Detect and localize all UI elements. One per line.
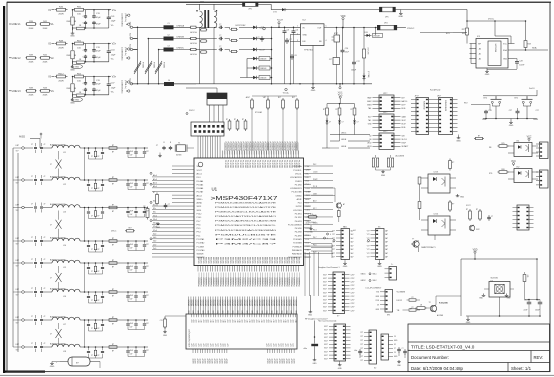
connector pins V3: [121, 80, 130, 94]
svg-text:GND: GND: [503, 58, 508, 60]
svg-text:S1?: S1?: [211, 320, 213, 323]
svg-text:4?: 4?: [44, 176, 46, 178]
svg-text:RT2: RT2: [464, 102, 468, 104]
svg-text:S1?: S1?: [274, 320, 276, 323]
svg-text:1N4148: 1N4148: [373, 36, 379, 38]
svg-text:GND: GND: [156, 227, 161, 229]
svg-text:S1?: S1?: [295, 320, 297, 323]
diode D42 bridge: [239, 48, 272, 52]
svg-text:DVCC1: DVCC1: [295, 173, 301, 175]
svg-text:LIN?: LIN?: [16, 238, 20, 240]
mcu right outside wires: [311, 166, 333, 253]
inductor L18 BLM41BCK219SVK: [43, 343, 86, 353]
svg-text:>MSP430F471X7: >MSP430F471X7: [211, 196, 278, 202]
reference U3 LM4040: [362, 28, 368, 75]
svg-text:P2.6: P2.6: [306, 239, 309, 241]
svg-text:L12: L12: [63, 184, 66, 186]
svg-text:Y+: Y+: [391, 264, 393, 266]
mcu bottom label band texture: [199, 273, 299, 285]
svg-text:S1?: S1?: [247, 320, 249, 323]
resistor R414 vertical: [67, 77, 77, 97]
ground buttons: [509, 119, 514, 127]
svg-text:DvOO: DvOO: [529, 88, 535, 90]
wire row A: [72, 76, 111, 78]
svg-text:C?: C?: [31, 343, 33, 345]
svg-text:100nF: 100nF: [535, 310, 540, 312]
svg-text:B?: B?: [98, 249, 100, 251]
resistor fuse R62 AC0 1A: [190, 48, 208, 56]
wire group 2 inter-row: [84, 207, 86, 242]
svg-text:S1?: S1?: [281, 319, 283, 322]
svg-text:P5.2C6S2: P5.2C6S2: [268, 160, 270, 168]
node LEDE2: [322, 123, 370, 148]
svg-text:R?580J: R?580J: [142, 62, 144, 68]
svg-text:P5.1: P5.1: [306, 184, 309, 186]
svg-text:C2?: C2?: [286, 343, 288, 346]
resistor R40 lcd left: [160, 316, 186, 330]
mcu inside left pin names: [197, 166, 205, 259]
header JP9 8pin: [367, 131, 408, 150]
svg-text:1N4148: 1N4148: [260, 59, 266, 61]
svg-text:V1+: V1+: [112, 9, 117, 12]
svg-text:P1.2/TA1: P1.2/TA1: [197, 238, 205, 241]
svg-text:AC0 1A: AC0 1A: [190, 42, 197, 45]
svg-text:P6.5/A5: P6.5/A5: [197, 183, 204, 186]
svg-text:SM30: SM30: [450, 100, 452, 104]
svg-text:S6: S6: [369, 139, 371, 141]
svg-text:B4??: B4??: [402, 105, 406, 107]
svg-text:200K: 200K: [43, 28, 48, 30]
wire bus mcu to resistor band: [189, 297, 297, 315]
title block outline: [408, 324, 550, 372]
header JTAG 2x7: [191, 122, 224, 136]
ground X6: [343, 260, 348, 268]
svg-text:L14: L14: [63, 245, 66, 247]
svg-text:5: 5: [326, 26, 327, 28]
svg-text:V1-: V1-: [111, 25, 114, 27]
svg-text:C2S?: C2S?: [351, 296, 355, 298]
svg-text:S1?: S1?: [232, 319, 234, 322]
svg-text:COM3: COM3: [306, 191, 311, 193]
svg-text:P2.4/S9: P2.4/S9: [295, 235, 302, 237]
svg-text:Sheet: 1/1: Sheet: 1/1: [511, 366, 532, 371]
svg-text:P5.2C6S2: P5.2C6S2: [285, 160, 287, 168]
svg-text:VCOMMS: VCOMMS: [397, 291, 406, 293]
svg-text:LIN?: LIN?: [16, 289, 20, 291]
power pin X6: [333, 240, 335, 242]
svg-text:Y2?: Y2?: [332, 230, 335, 232]
svg-text:P2.4: P2.4: [306, 235, 309, 237]
svg-text:S2: S2: [369, 135, 371, 137]
svg-text:P5.2S6C27: P5.2S6C27: [236, 142, 238, 151]
svg-text:PC.SLCDB/S1B: PC.SLCDB/S1B: [288, 224, 302, 226]
svg-text:C2S?: C2S?: [351, 303, 355, 305]
svg-text:S1?: S1?: [228, 320, 230, 323]
svg-text:DIO12: DIO12: [397, 300, 402, 302]
svg-text:P6.6/A6: P6.6/A6: [197, 187, 204, 190]
svg-text:S1?: S1?: [225, 320, 227, 323]
svg-text:P5.2C6S2: P5.2C6S2: [234, 160, 236, 168]
lcd top pin ticks: [192, 314, 296, 317]
svg-text:R?: R?: [112, 177, 114, 179]
svg-text:R?: R?: [478, 136, 480, 138]
svg-text:P5.2C6S2: P5.2C6S2: [271, 160, 273, 168]
svg-text:Z?: Z?: [50, 278, 52, 280]
svg-text:SLCLK: SLCLK: [402, 139, 408, 141]
svg-text:C?: C?: [402, 348, 404, 350]
svg-text:P480: P480: [306, 250, 310, 252]
svg-text:PCSL: PCSL: [306, 224, 310, 226]
svg-text:VDD: VDD: [341, 16, 346, 18]
svg-text:C?: C?: [329, 122, 331, 124]
svg-text:LCDREF/R23: LCDREF/R23: [290, 188, 302, 190]
svg-text:C2?: C2?: [266, 343, 268, 346]
svg-text:I5c0: I5c0: [153, 233, 156, 235]
mcu U1 MSP430F471X7 body: [194, 158, 304, 266]
svg-text:JP1?: JP1?: [383, 131, 387, 133]
svg-text:JP1?: JP1?: [437, 95, 441, 97]
svg-text:C2?: C2?: [196, 343, 198, 346]
svg-text:(Cm0B0nf0dBm): (Cm0B0nf0dBm): [121, 47, 123, 61]
svg-text:S3C?: S3C?: [323, 303, 327, 305]
svg-text:S2C3?: S2C3?: [292, 358, 294, 363]
resistor array band labels lower: [188, 311, 298, 314]
inductor L13 BLM41BCK219SVK: [43, 204, 86, 214]
resistor 1K to ground: [73, 59, 109, 64]
svg-text:C2?: C2?: [213, 343, 215, 346]
svg-text:S1?: S1?: [283, 320, 285, 323]
svg-text:F480?A/C8: F480?A/C8: [292, 253, 302, 256]
mcu right pins: [304, 166, 312, 257]
svg-text:4?: 4?: [44, 316, 46, 318]
svg-text:C2?: C2?: [274, 343, 276, 346]
svg-text:P5.2C6S2: P5.2C6S2: [224, 160, 226, 168]
svg-text:I3c0: I3c0: [153, 241, 156, 243]
svg-text:SDM4/8?: SDM4/8?: [197, 257, 205, 259]
svg-text:LIN?: LIN?: [16, 177, 20, 179]
svg-text:CnO3: CnO3: [433, 172, 438, 174]
connector JP12 keyboard: [434, 95, 458, 134]
svg-text:AVcc2: AVcc2: [197, 194, 202, 197]
ground: [70, 62, 75, 72]
resonator X4: [387, 154, 404, 170]
svg-text:P5.2C6S2: P5.2C6S2: [283, 160, 285, 168]
svg-text:B?: B?: [112, 244, 114, 246]
svg-text:S1?: S1?: [249, 320, 251, 323]
resistor array band labels upper: [188, 299, 298, 306]
wire GND pin IC2: [312, 46, 314, 84]
svg-text:B?: B?: [112, 350, 114, 352]
pin ReadY: [277, 19, 284, 27]
optocoupler Opt1: [508, 141, 538, 157]
resistor R50 100: [73, 7, 86, 16]
svg-text:GND: GND: [163, 335, 168, 337]
output caps L14: [122, 240, 149, 250]
svg-text:C2?: C2?: [194, 343, 196, 346]
svg-text:Z?: Z?: [50, 164, 52, 166]
wire group 1 inter-row: [84, 147, 86, 181]
svg-text:LINE2/C: LINE2/C: [177, 48, 185, 50]
capacitor C17b: [40, 315, 45, 325]
svg-text:C2?: C2?: [269, 343, 271, 346]
wire left bus 1: [12, 148, 14, 347]
ground: [70, 95, 75, 105]
capacitor C12b: [40, 175, 45, 185]
svg-text:X?: X?: [337, 316, 339, 318]
svg-text:C?: C?: [31, 288, 33, 290]
svg-text:C?: C?: [156, 145, 158, 147]
svg-text:LINE2/A: LINE2/A: [177, 24, 185, 27]
svg-text:S2: S2: [394, 344, 396, 346]
label V1.1 X4: [344, 227, 356, 232]
svg-text:P5.2C6S2: P5.2C6S2: [273, 160, 275, 168]
diode D46 1N4148: [247, 76, 272, 80]
power VDD: [341, 16, 346, 28]
svg-text:S2C3?: S2C3?: [203, 358, 205, 363]
mcu inside bottom labels: [199, 257, 302, 264]
svg-text:DVCC: DVCC: [111, 231, 117, 233]
svg-text:15?: 15?: [146, 244, 149, 246]
svg-text:S3C?: S3C?: [323, 278, 327, 280]
svg-text:T0?: T0?: [16, 243, 19, 245]
svg-text:P4.2/S8: P4.2/S8: [295, 232, 302, 234]
svg-text:C2?: C2?: [228, 343, 230, 346]
svg-text:C?: C?: [91, 355, 93, 357]
svg-text:S047236: S047236: [491, 277, 498, 279]
svg-text:L13: L13: [63, 212, 66, 214]
output caps L15: [122, 262, 149, 272]
node LEDC: [330, 123, 370, 134]
input LINE-V1 row: [9, 21, 54, 30]
svg-text:C2?: C2?: [360, 356, 363, 358]
lcd bottom outside labels left: [193, 358, 229, 363]
svg-text:47uF: 47uF: [130, 266, 134, 268]
svg-text:SD14: SD14: [197, 210, 202, 212]
connector pin LIN15: [13, 260, 33, 267]
svg-text:C26: C26: [488, 110, 491, 112]
filter mid caps L13: [86, 207, 122, 219]
svg-text:VCO?: VCO?: [466, 205, 471, 207]
document number row: [411, 355, 543, 360]
ground keyboard: [456, 135, 461, 143]
svg-text:22uF: 22uF: [524, 310, 528, 312]
buzzer K4 S047236: [484, 277, 514, 297]
lcd bottom stubs right: [268, 349, 295, 353]
capacitor C29 100n: [482, 110, 492, 121]
svg-text:C26: C26: [345, 48, 348, 50]
capacitor C40 pair: [92, 10, 101, 28]
svg-text:200K: 200K: [43, 62, 48, 64]
svg-text:GND: GND: [303, 35, 308, 37]
svg-text:C28: C28: [519, 60, 522, 62]
resistor R14 series: [109, 238, 117, 247]
svg-text:C2S?: C2S?: [351, 278, 355, 280]
mcu left pins: [187, 166, 195, 257]
svg-text:B?: B?: [112, 151, 114, 153]
svg-text:GSE3: GSE3: [367, 105, 372, 107]
svg-text:S2C3?: S2C3?: [272, 358, 274, 363]
svg-text:S2C3?: S2C3?: [275, 359, 277, 364]
svg-text:S2C3?: S2C3?: [294, 358, 296, 363]
resistor R31: [449, 159, 455, 171]
svg-text:100nF: 100nF: [519, 64, 525, 66]
svg-text:S2M3S2M30: S2M3S2M30: [444, 100, 446, 111]
svg-text:47uF: 47uF: [130, 151, 134, 153]
svg-text:P4.5: P4.5: [306, 228, 309, 230]
svg-text:P5.2C6S2: P5.2C6S2: [278, 160, 280, 168]
svg-text:C?: C?: [91, 328, 93, 330]
scan artifact bottom line: [0, 374, 554, 376]
svg-text:P5.2C6S2: P5.2C6S2: [244, 160, 246, 168]
filter mid caps L18: [86, 346, 122, 358]
svg-text:LRO2: LRO2: [367, 143, 371, 145]
svg-text:R412: R412: [58, 73, 64, 75]
svg-text:REV:: REV:: [534, 355, 544, 360]
output caps L18: [122, 346, 149, 356]
svg-text:P5.2C6S2: P5.2C6S2: [229, 160, 231, 168]
svg-text:S3C?: S3C?: [323, 296, 327, 298]
svg-text:P2.3/SM3: P2.3/SM3: [293, 243, 301, 245]
svg-text:P4.7: P4.7: [306, 217, 309, 219]
svg-text:Y2?: Y2?: [367, 245, 370, 247]
svg-text:47pF: 47pF: [96, 51, 101, 53]
fuse F2: [133, 34, 174, 40]
capacitor C40: [487, 215, 493, 221]
resistor R30: [474, 136, 484, 140]
wire bus mcu to daughter: [305, 252, 319, 296]
svg-text:C?: C?: [91, 271, 93, 273]
svg-text:B?: B?: [112, 266, 114, 268]
svg-text:P5.2C6S2: P5.2C6S2: [249, 160, 251, 168]
capacitor C15b: [40, 258, 45, 268]
svg-text:P5.2C6S2: P5.2C6S2: [261, 160, 263, 168]
svg-text:DVCC: DVCC: [488, 19, 495, 21]
lcd bottom outside labels right: [267, 358, 296, 363]
svg-text:B4?: B4?: [402, 97, 405, 99]
capacitor pair left: [83, 10, 87, 28]
svg-text:LM?-4?B: LM?-4?B: [367, 48, 369, 56]
svg-text:P1.5/TA0: P1.5/TA0: [197, 249, 205, 252]
svg-text:200R: 200R: [58, 80, 64, 82]
svg-text:4: 4: [326, 40, 327, 42]
svg-text:C11: C11: [160, 320, 163, 322]
capacitor C15a: [31, 258, 37, 268]
svg-text:P5.1/S0: P5.1/S0: [295, 184, 302, 186]
svg-text:R?: R?: [112, 145, 114, 147]
svg-text:S1?: S1?: [206, 320, 208, 323]
svg-text:P4.6: P4.6: [313, 244, 317, 246]
svg-text:P3M4/UCA0TXD/UCA0SIMO: P3M4/UCA0TXD/UCA0SIMO: [215, 215, 277, 218]
svg-text:P9.7: P9.7: [197, 221, 201, 223]
svg-text:C2S?: C2S?: [351, 300, 355, 302]
svg-text:R?: R?: [466, 209, 468, 211]
svg-text:15pF: 15pF: [111, 21, 116, 23]
svg-text:S1?: S1?: [218, 320, 220, 323]
label VCOMMS2: [466, 205, 471, 207]
svg-text:S2C3?: S2C3?: [267, 358, 269, 363]
svg-text:TITLE: LSD-ET471X7-03_V4.0: TITLE: LSD-ET471X7-03_V4.0: [411, 345, 475, 350]
mcu right pin name labels: [306, 166, 311, 259]
svg-text:0: 0: [330, 234, 331, 236]
resistor R411 vertical: [67, 44, 77, 64]
svg-text:JP1?: JP1?: [415, 95, 419, 97]
header X2a: [360, 330, 376, 364]
svg-text:Y2?: Y2?: [367, 242, 370, 244]
output caps L13: [122, 207, 149, 217]
svg-text:TPS7301: TPS7301: [304, 50, 314, 52]
svg-text:C?: C?: [357, 122, 359, 124]
svg-text:B?: B?: [98, 328, 100, 330]
svg-text:V1c0: V1c0: [153, 230, 157, 232]
svg-text:R?: R?: [112, 289, 114, 291]
svg-text:200R: 200R: [58, 14, 64, 16]
svg-text:C2?: C2?: [225, 343, 227, 346]
svg-text:15?: 15?: [146, 323, 149, 325]
svg-text:C2?: C2?: [271, 343, 273, 346]
svg-text:Daughter Card Connect 1: Daughter Card Connect 1: [318, 266, 340, 269]
filter mid caps L11: [86, 147, 122, 159]
svg-text:CM35: CM35: [306, 195, 310, 197]
svg-text:?ber Card Connect(1): ?ber Card Connect(1): [318, 319, 337, 322]
svg-text:PA0F: PA0F: [367, 96, 371, 99]
svg-text:Y2?: Y2?: [332, 253, 335, 255]
relay K1 label: [439, 303, 449, 305]
svg-text:R28: R28: [528, 44, 531, 46]
mcu top pins: [198, 151, 298, 159]
svg-text:P1.1: P1.1: [197, 235, 201, 237]
svg-text:ED4L: ED4L: [402, 108, 406, 110]
svg-text:P6.4/A4: P6.4/A4: [197, 180, 204, 183]
node T.B resistor: [397, 307, 421, 312]
svg-text:C?: C?: [31, 144, 33, 146]
label RF Daughter Card Connect: [305, 318, 328, 321]
svg-text:P1.7/SDA: P1.7/SDA: [293, 165, 302, 168]
svg-text:15pF: 15pF: [111, 54, 116, 56]
svg-text:LEDE: LEDE: [341, 139, 347, 141]
header X5: [367, 226, 388, 259]
svg-text:4?: 4?: [44, 237, 46, 239]
input LINE-V2 row: [9, 55, 54, 64]
ground adc: [156, 222, 161, 229]
svg-text:GND: GND: [70, 103, 75, 105]
svg-text:C2?: C2?: [509, 110, 512, 112]
svg-text:KTOOAC: KTOOAC: [255, 111, 263, 114]
transformer TR1 SB1: [186, 1, 243, 83]
label U1: [212, 187, 218, 192]
capacitor C28 100nF: [515, 59, 526, 70]
svg-text:4?: 4?: [44, 204, 46, 206]
wire button top rail: [483, 96, 537, 99]
svg-text:S3C?: S3C?: [323, 274, 327, 276]
svg-text:A2: A2: [479, 57, 481, 60]
svg-text:BT1: BT1: [515, 98, 518, 100]
wire battery to lcd: [90, 362, 100, 369]
capacitor C18a: [31, 342, 37, 352]
svg-text:S(C?m): S(C?m): [128, 44, 130, 51]
power VCC opt1: [527, 137, 532, 142]
svg-text:A0: A0: [479, 47, 481, 50]
svg-text:SD13: SD13: [197, 206, 202, 208]
svg-text:V2-: V2-: [111, 59, 114, 61]
svg-text:R?: R?: [452, 204, 454, 206]
svg-text:LINE-V2: LINE-V2: [12, 58, 21, 60]
svg-text:S1?: S1?: [257, 319, 259, 322]
mcu pin1 circle: [198, 162, 203, 167]
svg-text:C2S?: C2S?: [351, 307, 355, 309]
svg-text:B?: B?: [112, 295, 114, 297]
svg-text:SDM2/8: SDM2/8: [197, 254, 204, 256]
inductor L11 BLM41BCK219SVK: [43, 144, 86, 154]
